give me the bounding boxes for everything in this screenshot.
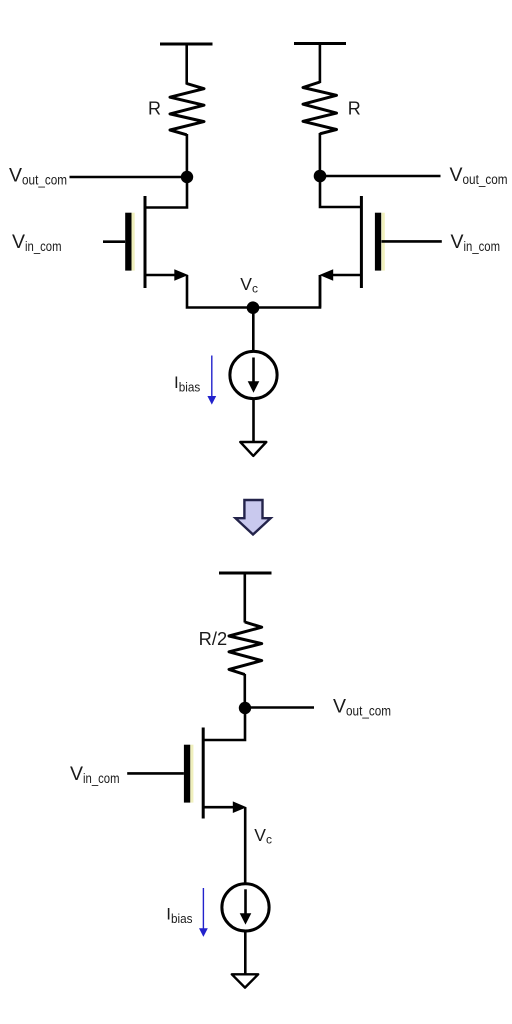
- M1 source lead with arrow: [145, 274, 180, 277]
- resistor R2 (right): [303, 82, 337, 134]
- svg-text:Vin_com: Vin_com: [70, 763, 120, 786]
- resistor R1 (left): [170, 84, 204, 135]
- node Vout_left (junction dot): [181, 171, 193, 183]
- M2 gate highlight: [382, 213, 385, 271]
- wire: gate lead M3: [127, 772, 184, 775]
- current source I2: [222, 884, 269, 931]
- wire: node Vout_right to drain of M2: [320, 176, 361, 207]
- svg-text:Vc: Vc: [254, 825, 272, 847]
- M3 gate highlight: [190, 745, 193, 803]
- M3 gate bar: [184, 745, 190, 803]
- current source I1: [230, 351, 277, 398]
- wire: node Vout_bottom to label: [245, 706, 314, 709]
- svg-text:Vin_com: Vin_com: [12, 231, 62, 254]
- ground (bottom): [232, 974, 258, 987]
- wire: source M2 down to tail bus: [319, 275, 322, 308]
- M1 gate highlight: [132, 213, 135, 271]
- wire: gate lead M2: [382, 240, 442, 243]
- wire: tail bus right to source M2: [253, 275, 320, 308]
- M3 channel: [202, 728, 205, 819]
- wire: gate lead M1: [103, 240, 125, 243]
- wire: node Vout_left to drain of M1: [145, 177, 187, 208]
- M1 gate bar: [125, 213, 131, 271]
- M2 channel: [360, 196, 363, 288]
- ground (top): [240, 442, 266, 456]
- supply rail left (VDD T-symbol): [160, 44, 213, 85]
- wire: source M3 down to current source I2: [244, 807, 247, 883]
- supply rail right (VDD T-symbol): [294, 44, 346, 84]
- wire: resistor R3 to node Vout_bottom: [244, 674, 247, 708]
- M2 gate bar: [375, 213, 381, 271]
- wire: current source I2 to ground: [244, 931, 247, 975]
- svg-text:Vc: Vc: [240, 274, 258, 296]
- wire: node Vout_bottom to drain of M3: [203, 708, 245, 740]
- wire: current source I1 to ground: [252, 398, 255, 442]
- transistor M1 (left NMOS): [125, 196, 188, 288]
- svg-text:R: R: [348, 99, 361, 119]
- wire: node V_c to current source I1: [252, 308, 255, 352]
- svg-text:Vout_com: Vout_com: [9, 165, 67, 188]
- node V_c (tail junction dot): [247, 301, 260, 314]
- svg-text:R: R: [148, 99, 161, 119]
- svg-text:Vin_com: Vin_com: [451, 231, 501, 254]
- wire: resistor R1 to node Vout_left: [186, 134, 189, 177]
- wire: label to node Vout_left: [70, 176, 188, 179]
- wire: resistor R2 to node Vout_right: [319, 133, 322, 176]
- node Vout_right (junction dot): [314, 170, 327, 183]
- M3 source lead with arrow: [203, 806, 239, 809]
- blue current arrow (top): [207, 356, 216, 405]
- svg-text:Vout_com: Vout_com: [450, 164, 508, 187]
- M1 channel: [144, 196, 147, 288]
- svg-text:Vout_com: Vout_com: [333, 695, 391, 718]
- svg-text:Ibias: Ibias: [166, 905, 192, 926]
- supply rail bottom (VDD T-symbol): [219, 573, 272, 623]
- node Vout_bottom (junction dot): [239, 702, 251, 714]
- transistor M2 (right NMOS, mirrored): [319, 196, 384, 288]
- wire: source M1 down to tail bus: [187, 275, 253, 308]
- resistor R3 "R/2": [229, 622, 262, 675]
- blue current arrow (bottom): [199, 888, 208, 937]
- wire: node Vout_right to label: [320, 175, 441, 178]
- svg-text:R/2: R/2: [199, 629, 228, 649]
- transistor M3 (bottom NMOS): [184, 728, 247, 819]
- block arrow (transform symbol): [236, 500, 271, 535]
- M2 source lead with arrow: [326, 274, 361, 277]
- svg-text:Ibias: Ibias: [174, 373, 200, 394]
